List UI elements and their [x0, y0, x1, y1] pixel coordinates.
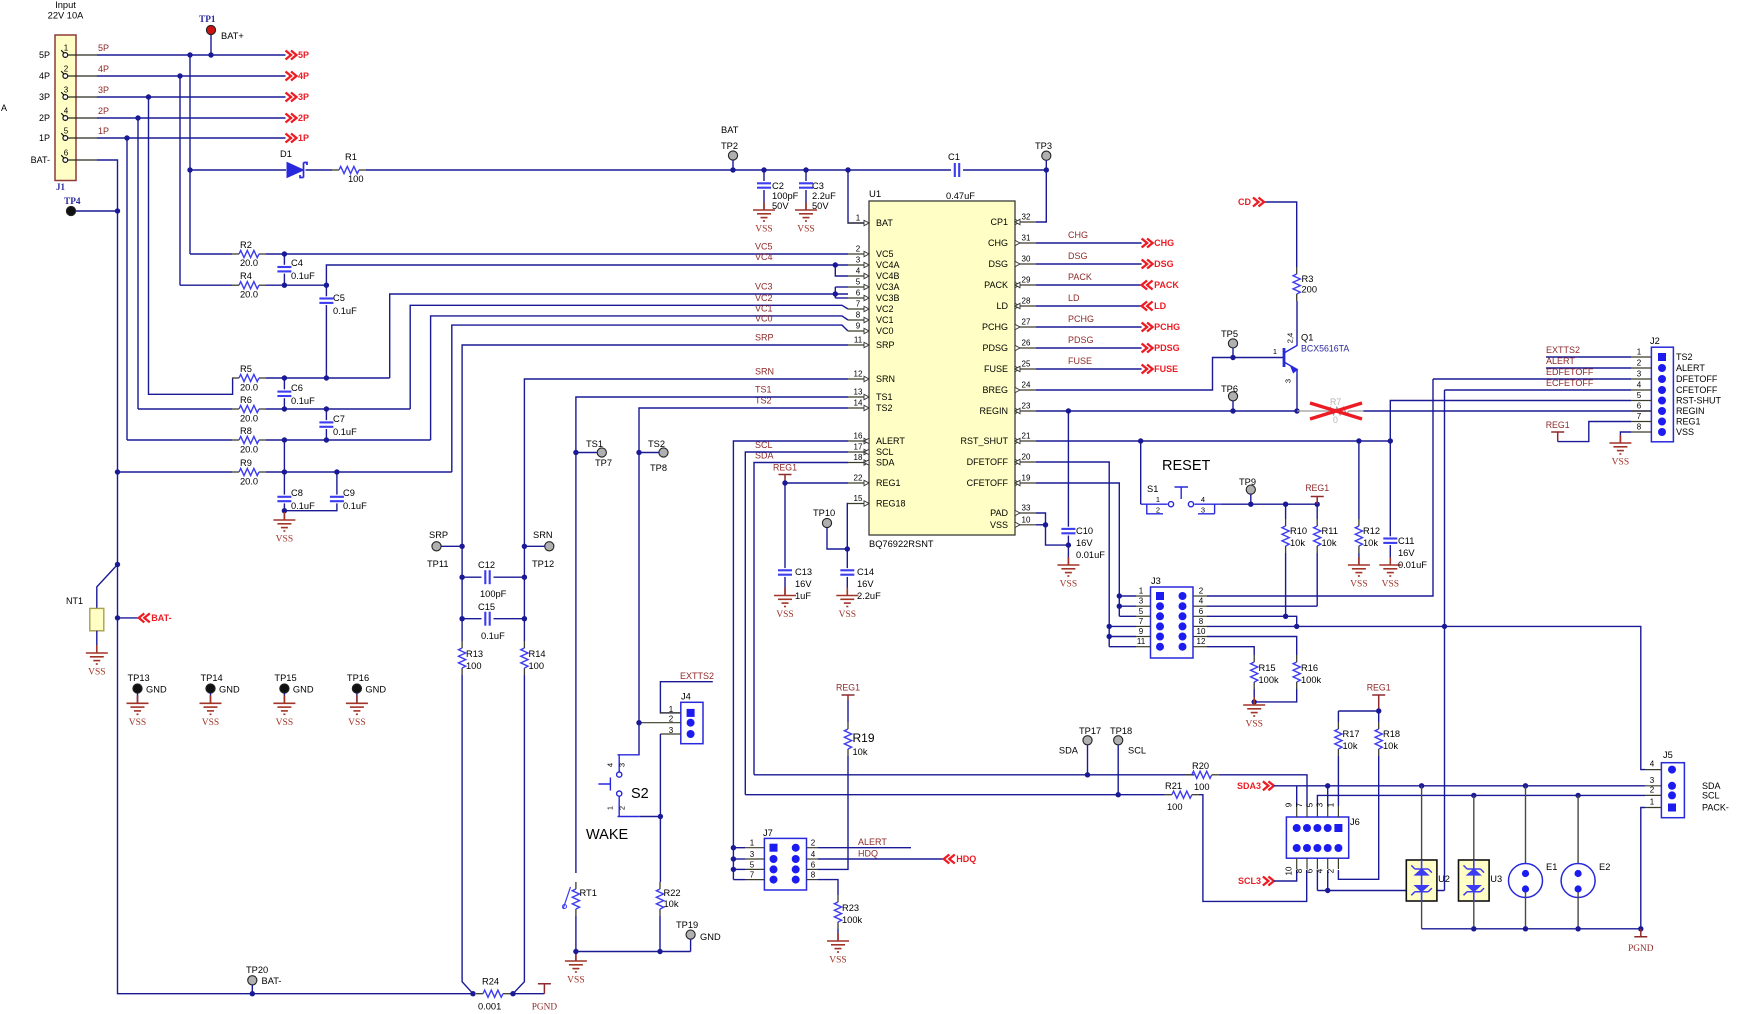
- J4 pin 2: [687, 719, 695, 727]
- svg-text:TS1: TS1: [586, 439, 603, 449]
- wire 1P net: [97, 137, 286, 139]
- U1 pin 29 PACK: [1015, 284, 1036, 286]
- resistor R14: [523, 641, 525, 648]
- wire R11 top: [1316, 504, 1318, 519]
- resistor R7 (DNP, crossed out): [1297, 407, 1364, 414]
- capacitor C3: [799, 182, 813, 184]
- wire C13 bottom: [784, 577, 786, 596]
- J1 pin 6 (BAT-): [63, 158, 68, 163]
- wire R6 right: [266, 408, 410, 410]
- wire TP17 stub: [1087, 745, 1089, 775]
- svg-text:20.0: 20.0: [240, 383, 258, 393]
- svg-text:BQ76922RSNT: BQ76922RSNT: [869, 539, 934, 549]
- wire J3p12 to R15: [1207, 647, 1254, 655]
- wire TP12 stub: [524, 545, 545, 547]
- wire J4p3 down: [659, 734, 661, 817]
- svg-text:1: 1: [1139, 587, 1144, 596]
- net flag PDSG flag: [1142, 344, 1153, 353]
- U1 pin 23 REGIN: [1015, 410, 1036, 412]
- svg-text:DSG: DSG: [1068, 251, 1088, 261]
- svg-text:2: 2: [1650, 785, 1655, 794]
- ground VSS: [273, 695, 295, 714]
- net flag PCHG flag: [1142, 323, 1153, 332]
- svg-text:16V: 16V: [1398, 548, 1415, 558]
- connector J3: [1151, 587, 1194, 658]
- svg-text:U3: U3: [1490, 874, 1502, 884]
- J4 pin 1: [687, 709, 695, 717]
- svg-text:VSS: VSS: [567, 976, 584, 986]
- svg-text:R7: R7: [1330, 397, 1341, 407]
- svg-text:TP12: TP12: [532, 559, 554, 569]
- wire TP11 stub: [441, 545, 462, 547]
- resistor R5: [232, 377, 239, 379]
- J3 pin 1: [1156, 592, 1164, 600]
- junction: [146, 94, 151, 99]
- junction: [833, 291, 838, 296]
- junction: [573, 450, 578, 455]
- wire R12 bottom: [1358, 553, 1360, 565]
- svg-text:22: 22: [854, 474, 863, 483]
- svg-text:PCHG: PCHG: [1068, 314, 1094, 324]
- wire PCHG: [1036, 326, 1142, 328]
- svg-text:S2: S2: [631, 786, 649, 802]
- svg-text:TP8: TP8: [650, 463, 667, 473]
- resistor R19: [847, 722, 849, 729]
- junction: [1315, 502, 1320, 507]
- junction: [1117, 593, 1122, 598]
- wire SRP: [462, 345, 848, 546]
- wire C7 top: [325, 409, 327, 420]
- svg-text:C1: C1: [948, 152, 960, 162]
- svg-text:SCL: SCL: [1128, 746, 1146, 756]
- svg-text:R12: R12: [1363, 526, 1380, 536]
- svg-text:VSS: VSS: [1350, 580, 1367, 590]
- svg-text:PACK: PACK: [984, 280, 1008, 290]
- wire J3p4: [1207, 605, 1317, 607]
- svg-text:EDFETOFF: EDFETOFF: [1546, 367, 1594, 377]
- net flag HDQ flag: [944, 855, 955, 864]
- svg-text:TP18: TP18: [1110, 726, 1132, 736]
- junction: [1116, 792, 1121, 797]
- svg-text:GND: GND: [146, 685, 167, 695]
- svg-text:3: 3: [1637, 370, 1642, 379]
- svg-text:10: 10: [1197, 627, 1206, 636]
- svg-text:19: 19: [1022, 474, 1031, 483]
- junction: [522, 616, 527, 621]
- svg-text:1: 1: [1637, 348, 1642, 357]
- J2 pin 7 (REG1): [1658, 418, 1666, 426]
- svg-text:C7: C7: [333, 414, 345, 424]
- svg-text:BAT: BAT: [721, 125, 739, 135]
- svg-text:VC5: VC5: [876, 249, 894, 259]
- svg-text:6: 6: [811, 860, 816, 869]
- wire J6p9: [1296, 786, 1298, 806]
- resistor R11: [1316, 519, 1318, 526]
- wire ECFETOFF: [1445, 389, 1632, 391]
- svg-text:C15: C15: [478, 602, 495, 612]
- svg-text:SRP: SRP: [876, 340, 895, 350]
- svg-text:TP2: TP2: [721, 141, 738, 151]
- wire R20 to J6p7: [1219, 775, 1307, 806]
- svg-text:1P: 1P: [298, 133, 309, 143]
- wire TS1 down: [575, 453, 577, 874]
- resistor R21: [1165, 794, 1172, 796]
- wire TP3 stub: [1045, 160, 1047, 170]
- svg-text:TS1: TS1: [876, 392, 893, 402]
- U1 pin 19 CFETOFF: [1015, 482, 1036, 484]
- svg-text:REG1: REG1: [1676, 417, 1701, 427]
- svg-text:PCHG: PCHG: [1154, 322, 1180, 332]
- wire R22 bottom: [659, 916, 661, 952]
- svg-text:5P: 5P: [298, 50, 309, 60]
- svg-text:1: 1: [1156, 495, 1160, 504]
- svg-text:LD: LD: [1068, 293, 1080, 303]
- wire R12 top: [1358, 441, 1360, 519]
- svg-text:VSS: VSS: [202, 718, 219, 728]
- svg-text:R10: R10: [1290, 526, 1307, 536]
- wire R17 top: [1337, 711, 1339, 722]
- wire 1P to R8: [126, 138, 128, 440]
- wire SRP down: [462, 675, 473, 994]
- J7 pin 2: [792, 844, 800, 852]
- svg-text:ALERT: ALERT: [1676, 363, 1705, 373]
- junction D1 tap: [187, 167, 192, 172]
- svg-text:R1: R1: [345, 152, 357, 162]
- wire BAT- flag stub: [118, 617, 139, 619]
- ground VSS: [346, 695, 368, 714]
- J3 pin 12: [1179, 643, 1187, 651]
- wire SDA col: [754, 463, 848, 775]
- svg-text:6: 6: [1637, 402, 1642, 411]
- svg-text:C5: C5: [333, 293, 345, 303]
- connector J1: [55, 35, 76, 181]
- svg-text:VSS: VSS: [1382, 580, 1399, 590]
- junction: [250, 991, 255, 996]
- wire TP7 stub: [576, 452, 597, 454]
- wire E1 bottom lead: [1525, 892, 1527, 929]
- svg-text:27: 27: [1022, 318, 1031, 327]
- svg-text:TP9: TP9: [1239, 477, 1256, 487]
- svg-text:5P: 5P: [39, 50, 50, 60]
- svg-text:VC2: VC2: [876, 304, 894, 314]
- wire J7p5: [733, 868, 745, 870]
- svg-text:20.0: 20.0: [240, 445, 258, 455]
- junction: [124, 135, 129, 140]
- svg-text:VSS: VSS: [829, 956, 846, 966]
- wire Q1 collector: [1296, 301, 1298, 341]
- U1 pin 11 SRP: [848, 344, 869, 346]
- svg-text:SRN: SRN: [876, 374, 895, 384]
- svg-text:PDSG: PDSG: [982, 343, 1008, 353]
- svg-text:3: 3: [1201, 506, 1205, 515]
- U1 pin 26 PDSG: [1015, 347, 1036, 349]
- svg-text:16: 16: [854, 432, 863, 441]
- connector J2: [1651, 347, 1673, 442]
- svg-text:2.2uF: 2.2uF: [812, 191, 836, 201]
- wire R10 top: [1285, 504, 1287, 519]
- svg-text:PDSG: PDSG: [1068, 335, 1094, 345]
- J1 pin 2 (4P): [63, 74, 68, 79]
- svg-text:2: 2: [1199, 587, 1204, 596]
- junction: [731, 867, 736, 872]
- wire R18 top: [1378, 711, 1380, 722]
- junction: [282, 283, 287, 288]
- U1 pin 9 VC0: [848, 330, 869, 332]
- J1 pin 1 (5P): [63, 53, 68, 58]
- wire VC2: [410, 305, 848, 409]
- J6 pin 5: [1313, 824, 1321, 832]
- wire TP20 stub: [251, 985, 253, 994]
- svg-text:100k: 100k: [1301, 675, 1322, 685]
- J3 pin 8: [1179, 622, 1187, 630]
- svg-text:5: 5: [856, 278, 861, 287]
- wire R16 bottom: [1254, 689, 1297, 702]
- wire R9 right: [266, 471, 452, 473]
- svg-text:TS2: TS2: [1676, 352, 1693, 362]
- svg-text:20.0: 20.0: [240, 477, 258, 487]
- U1 pin 25 FUSE: [1015, 368, 1036, 370]
- svg-text:R13: R13: [466, 649, 483, 659]
- svg-text:TP3: TP3: [1035, 141, 1052, 151]
- J7 pin 8: [792, 876, 800, 884]
- net flag 3P flag: [286, 93, 297, 102]
- op-amp U1 BQ76922RSNT (battery monitor IC): [869, 201, 1015, 535]
- J3 pin 2: [1179, 592, 1187, 600]
- svg-text:SCL: SCL: [1702, 791, 1720, 801]
- wire C2 top: [763, 170, 765, 181]
- U1 pin 3 VC4A: [848, 264, 869, 266]
- svg-text:ECFETOFF: ECFETOFF: [1546, 378, 1594, 388]
- svg-text:100: 100: [529, 661, 545, 671]
- svg-text:11: 11: [1137, 637, 1146, 646]
- svg-text:LD: LD: [1154, 301, 1166, 311]
- svg-text:7: 7: [1637, 412, 1642, 421]
- svg-text:20.0: 20.0: [240, 258, 258, 268]
- J6 pin 9: [1293, 824, 1301, 832]
- svg-text:TP11: TP11: [427, 559, 449, 569]
- svg-text:1uF: 1uF: [795, 591, 811, 601]
- J2 pin 8 (VSS): [1658, 428, 1666, 436]
- svg-text:SRN: SRN: [755, 367, 774, 377]
- svg-text:R16: R16: [1301, 663, 1318, 673]
- testpoint TP6: [1228, 392, 1237, 401]
- svg-text:SDA: SDA: [1059, 746, 1079, 756]
- J2 pin 2 (ALERT): [1658, 364, 1666, 372]
- svg-text:VSS: VSS: [276, 718, 293, 728]
- svg-text:6: 6: [1199, 607, 1204, 616]
- svg-text:1: 1: [606, 806, 615, 810]
- svg-text:SRP: SRP: [755, 333, 774, 343]
- svg-text:5: 5: [1139, 607, 1144, 616]
- wire C2 bottom: [763, 190, 765, 210]
- svg-text:29: 29: [1022, 276, 1031, 285]
- wire DFETOFF bundle: [1036, 462, 1109, 647]
- svg-text:C2: C2: [772, 181, 784, 191]
- J6 pin 7: [1303, 824, 1311, 832]
- testpoint TP20: [248, 976, 257, 985]
- wire BAT to U1 pin1: [848, 170, 869, 223]
- wire R8 right: [266, 439, 431, 441]
- wire SRN down: [513, 675, 524, 994]
- wire to D1: [190, 169, 286, 171]
- svg-text:33: 33: [1022, 504, 1031, 513]
- testpoint TP12: [545, 542, 554, 551]
- wire R23 bottom: [837, 929, 839, 941]
- testpoint TP7: [597, 448, 606, 457]
- capacitor C6: [277, 391, 291, 393]
- J3 pin 6: [1179, 612, 1187, 620]
- svg-text:C6: C6: [291, 383, 303, 393]
- wire S2 bottom: [640, 816, 661, 818]
- junction: [1138, 438, 1143, 443]
- svg-text:2P: 2P: [298, 113, 309, 123]
- resistor R18: [1378, 722, 1380, 729]
- wire R2 left: [190, 253, 232, 255]
- svg-text:9: 9: [1285, 802, 1294, 807]
- junction: [1575, 926, 1580, 931]
- capacitor C11: [1383, 537, 1397, 539]
- wire C3 bottom: [805, 190, 807, 210]
- ground VSS: [836, 588, 858, 607]
- testpoint TP19: [686, 930, 695, 939]
- wire R17R18 top: [1338, 710, 1378, 712]
- testpoint TP4: [66, 206, 75, 215]
- svg-text:GND: GND: [293, 685, 314, 695]
- U1 pin 6 VC3B: [848, 297, 869, 299]
- J4 pin 3: [687, 730, 695, 738]
- U1 pin 24 BREG: [1015, 389, 1036, 391]
- capacitor C13: [778, 569, 792, 571]
- J2 pin 5 (RST-SHUT): [1658, 397, 1666, 405]
- wire C9 top: [336, 472, 338, 495]
- transistor Q1 BCX5616TA: [1284, 341, 1297, 374]
- svg-text:8: 8: [856, 311, 861, 320]
- U1 pin 4 VC4B: [848, 275, 869, 277]
- wire PAD-VSS: [1036, 513, 1068, 545]
- svg-text:REG1: REG1: [876, 478, 901, 488]
- U1 pin 32 CP1: [1015, 221, 1036, 223]
- svg-text:VC1: VC1: [755, 304, 773, 314]
- svg-text:CHG: CHG: [1068, 230, 1088, 240]
- wire R4 right: [266, 284, 326, 286]
- junction: [1230, 408, 1235, 413]
- U1 pin 10 VSS: [1015, 524, 1036, 526]
- svg-text:RST-SHUT: RST-SHUT: [1676, 396, 1722, 406]
- wire C4 top: [283, 254, 285, 265]
- svg-text:WAKE: WAKE: [586, 827, 628, 843]
- resistor R12: [1358, 519, 1360, 526]
- net flag BAT- flag: [139, 613, 150, 622]
- wire J3p7: [1109, 625, 1136, 627]
- wire J7p1: [733, 847, 745, 849]
- svg-text:1P: 1P: [39, 133, 50, 143]
- svg-text:TP15: TP15: [274, 673, 296, 683]
- capacitor C12: [484, 570, 486, 584]
- svg-text:CD: CD: [1238, 197, 1251, 207]
- U1 pin 8 VC1: [848, 319, 869, 321]
- svg-text:TS2: TS2: [648, 439, 665, 449]
- junction: [115, 208, 120, 213]
- U1 pin 17 SCL: [848, 451, 869, 453]
- wire 2P to R6: [137, 118, 139, 409]
- junction: [1066, 542, 1071, 547]
- svg-text:7: 7: [856, 300, 861, 309]
- net flag LD flag: [1142, 302, 1153, 311]
- svg-text:VC0: VC0: [755, 314, 773, 324]
- svg-text:VC2: VC2: [755, 293, 773, 303]
- svg-text:22V 10A: 22V 10A: [48, 11, 84, 21]
- wire to R22: [659, 817, 661, 883]
- testpoint TP5: [1228, 339, 1237, 348]
- capacitor C14: [840, 569, 854, 571]
- wire J7p3: [733, 858, 745, 860]
- resistor RT1: [575, 882, 577, 889]
- wire C12 left: [462, 576, 481, 578]
- svg-text:J5: J5: [1663, 750, 1673, 760]
- wire VC3 fork: [834, 287, 836, 298]
- junction: [1356, 438, 1361, 443]
- U1 pin 27 PCHG: [1015, 326, 1036, 328]
- svg-text:C12: C12: [478, 560, 495, 570]
- svg-text:100: 100: [466, 661, 482, 671]
- svg-text:24: 24: [1022, 381, 1031, 390]
- svg-text:0.1uF: 0.1uF: [291, 271, 315, 281]
- svg-text:3: 3: [1284, 379, 1293, 383]
- svg-text:VC4A: VC4A: [876, 260, 900, 270]
- net flag DSG flag: [1142, 260, 1153, 269]
- svg-text:4: 4: [1199, 597, 1204, 606]
- junction: [1523, 926, 1528, 931]
- resistor R17: [1337, 722, 1339, 729]
- wire J3p6: [1207, 616, 1297, 626]
- svg-text:R5: R5: [240, 364, 252, 374]
- wire TP1 stub: [210, 35, 212, 55]
- junction: [324, 375, 329, 380]
- junction: [324, 437, 329, 442]
- junction: [658, 814, 663, 819]
- resistor R16: [1296, 655, 1298, 662]
- svg-text:VC1: VC1: [876, 315, 894, 325]
- resistor R9: [232, 471, 239, 473]
- wire RST_SHUT: [1036, 440, 1390, 442]
- wire SDA row: [754, 774, 1194, 776]
- svg-text:REG1: REG1: [773, 463, 797, 473]
- testpoint TP15: [280, 684, 289, 693]
- junction: [1294, 408, 1299, 413]
- wire TP6 stub: [1232, 401, 1234, 411]
- svg-text:VSS: VSS: [1060, 580, 1077, 590]
- svg-text:R19: R19: [853, 731, 875, 745]
- svg-text:100: 100: [1167, 802, 1183, 812]
- svg-text:VSS: VSS: [88, 668, 105, 678]
- svg-text:0.01uF: 0.01uF: [1398, 560, 1427, 570]
- junction: [1283, 502, 1288, 507]
- net flag 5P flag: [286, 51, 297, 60]
- svg-text:16V: 16V: [1076, 538, 1093, 548]
- wire C11 top: [1389, 441, 1391, 536]
- resistor R15: [1253, 655, 1255, 662]
- svg-text:Q1: Q1: [1301, 333, 1313, 343]
- svg-text:2: 2: [811, 839, 816, 848]
- svg-text:R24: R24: [482, 977, 499, 987]
- junction: [177, 73, 182, 78]
- svg-text:SCL: SCL: [876, 447, 894, 457]
- svg-text:R6: R6: [240, 395, 252, 405]
- J3 pin 9: [1156, 633, 1164, 641]
- junction: [1419, 783, 1424, 788]
- ground VSS: [1379, 557, 1401, 576]
- svg-text:R14: R14: [529, 649, 546, 659]
